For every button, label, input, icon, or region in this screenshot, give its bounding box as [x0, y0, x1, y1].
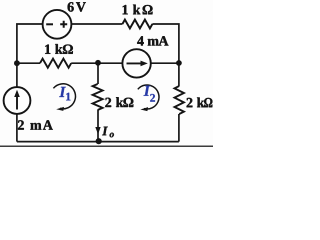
junction node D bottom: [96, 138, 102, 144]
current source I3 2mA circle: [4, 87, 31, 114]
I3 arrow: [16, 95, 18, 110]
wire middle branch lower: [97, 110, 99, 142]
bottom rule: [0, 145, 213, 147]
label I2 (blue): [144, 86, 151, 96]
label 2 kΩ right: [187, 97, 213, 107]
label 1 kΩ top: [123, 5, 153, 15]
label Io: [102, 127, 108, 136]
resistor R4 2kΩ right zigzag: [175, 86, 184, 114]
I4 arrow: [127, 62, 144, 64]
mesh current I2 arrow arc: [138, 85, 159, 109]
V1 plus sign: [60, 21, 67, 28]
wire right-rail lower: [178, 114, 180, 142]
label 4 mA: [137, 36, 168, 45]
resistor R3 2kΩ middle zigzag: [93, 84, 103, 110]
label I1 (blue): [59, 87, 66, 97]
label 2 kΩ middle: [105, 97, 133, 107]
V1 minus sign: [46, 23, 53, 25]
wire top-right segment: [152, 24, 179, 86]
wire top-middle segment: [71, 23, 122, 25]
resistor R2 1kΩ row2 zigzag: [40, 59, 71, 68]
wire row2 middle: [71, 62, 122, 64]
label 1 kΩ row2: [45, 44, 73, 54]
junction node C right: [176, 60, 182, 66]
wire left-rail upper: [16, 63, 18, 87]
wire row2 right: [151, 62, 179, 64]
wire middle branch upper: [97, 63, 99, 84]
junction node A left: [14, 60, 20, 66]
wire top-left segment: [17, 24, 43, 63]
Io arrow on middle branch: [95, 127, 100, 134]
wire left-rail lower: [16, 114, 18, 142]
wire bottom: [17, 141, 179, 143]
current source I4 4mA circle: [122, 49, 150, 77]
label 2 mA: [18, 120, 53, 129]
wire row2 left: [17, 62, 40, 64]
resistor R1 1kΩ top zigzag: [122, 20, 152, 29]
mesh current I1 arrow arc: [53, 84, 75, 109]
voltage source V1 6V circle: [43, 10, 72, 39]
junction node B middle-top: [95, 60, 101, 66]
label 6 V: [68, 2, 86, 11]
